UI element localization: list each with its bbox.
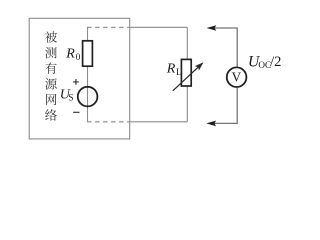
svg-text:0: 0 xyxy=(76,53,81,63)
svg-text:V: V xyxy=(232,69,242,84)
svg-text:S: S xyxy=(68,94,73,104)
svg-text:R: R xyxy=(65,47,75,62)
svg-text:R: R xyxy=(166,62,176,77)
svg-text:/2: /2 xyxy=(270,54,281,70)
svg-text:L: L xyxy=(176,68,182,78)
